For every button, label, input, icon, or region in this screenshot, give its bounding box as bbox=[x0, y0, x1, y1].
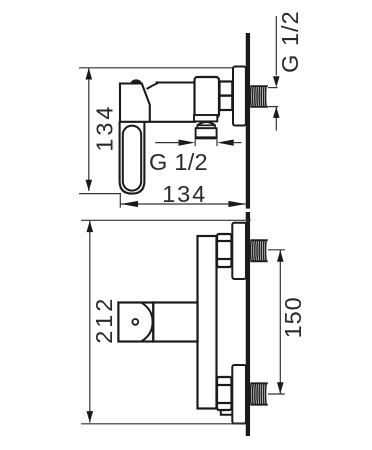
bottom union nut bbox=[217, 377, 232, 410]
svg-text:212: 212 bbox=[91, 299, 117, 344]
wire: ext line left of 134 width dim bbox=[119, 194, 121, 207]
svg-text:134: 134 bbox=[91, 107, 117, 152]
wire: G1/2 dim line lower segment bbox=[275, 107, 277, 131]
svg-text:G 1/2: G 1/2 bbox=[277, 11, 303, 73]
svg-text:150: 150 bbox=[280, 297, 306, 338]
top union nut bbox=[217, 234, 232, 267]
top rosette bbox=[232, 223, 246, 279]
wire: ext line bottom of 212 dim bbox=[81, 423, 246, 425]
wall (upper view) bbox=[246, 33, 250, 209]
wire: ext line bottom of 150 dim bbox=[268, 393, 285, 395]
node: arrow down 150 bbox=[277, 382, 284, 394]
valve body cylinder (lower view) bbox=[153, 303, 197, 342]
mixer body mid cylinder bbox=[150, 83, 196, 122]
wire: 212 dim line bbox=[89, 221, 91, 423]
wire: 134 vertical dimension line bbox=[88, 68, 90, 191]
mounting bar body bbox=[198, 236, 217, 409]
node: arrow left toward outlet right bbox=[217, 140, 234, 146]
handle pin circle bbox=[132, 319, 138, 325]
bottom rosette bbox=[232, 365, 246, 424]
outlet flange bbox=[194, 115, 217, 121]
wire: 134 width dim line bbox=[121, 203, 246, 205]
lever inner bbox=[123, 126, 141, 191]
node: arrow down of 134 dim bbox=[86, 180, 93, 191]
wall (lower view) bbox=[246, 212, 250, 436]
hex nut on body bbox=[220, 82, 233, 111]
threaded inlet stud (top view) bbox=[251, 86, 267, 107]
node: arrow left end bbox=[121, 201, 138, 207]
outlet dome bbox=[197, 122, 215, 125]
union pipe step below bottom nut bbox=[221, 410, 233, 415]
wire: ext line bottom of G1/2 stud dim bbox=[268, 106, 278, 108]
node: arrow down to stud top bbox=[273, 76, 280, 87]
outlet threaded stub bbox=[196, 128, 217, 138]
outlet collar bbox=[197, 125, 215, 128]
hub top bump bbox=[131, 80, 142, 84]
wire: ext line top of G1/2 stud dim bbox=[268, 87, 278, 89]
top threaded stud (lower view) bbox=[251, 240, 267, 262]
wire: ext lines of outlet G1/2 dim bbox=[194, 140, 196, 147]
body curve to handle bbox=[147, 83, 158, 89]
wall plate / escutcheon bbox=[233, 67, 246, 126]
node: arrow up to stud bottom bbox=[273, 107, 280, 118]
wire: 150 dim line bbox=[279, 250, 281, 394]
svg-text:G 1/2: G 1/2 bbox=[149, 149, 208, 175]
svg-text:134: 134 bbox=[162, 181, 205, 207]
lever outer bbox=[120, 122, 145, 194]
wire: ext line top of 150 dim bbox=[268, 249, 285, 251]
node: arrow right toward outlet left bbox=[179, 140, 196, 146]
node: arrow up of 134 dim bbox=[86, 68, 93, 80]
wire: extension line top of 134 height dim bbox=[79, 67, 234, 69]
wire: ext line top of 212 dim bbox=[81, 219, 251, 221]
lever bulge arc bbox=[142, 303, 153, 341]
wire: extension line bottom of 134 height dim bbox=[79, 193, 121, 195]
wire: G1/2 dim line upper segment bbox=[275, 16, 277, 76]
handle hub bbox=[120, 84, 150, 122]
node: arrow up 150 bbox=[277, 250, 284, 262]
big cylinder (cartridge cap) bbox=[195, 77, 220, 118]
node: arrow up 212 bbox=[87, 221, 94, 233]
handle (lower view) bbox=[118, 303, 153, 342]
node: arrow down 212 bbox=[87, 411, 94, 423]
bottom threaded stud (lower view) bbox=[251, 383, 267, 405]
node: arrow right end bbox=[228, 201, 245, 207]
